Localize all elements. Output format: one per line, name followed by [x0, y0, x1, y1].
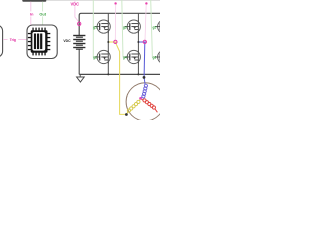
svg-text:Out: Out	[39, 13, 46, 17]
svg-text:VDC: VDC	[70, 2, 79, 7]
svg-text:VDC: VDC	[63, 39, 71, 43]
svg-text:g5: g5	[153, 25, 157, 29]
svg-text:g3: g3	[123, 25, 127, 29]
svg-text:Trig: Trig	[10, 38, 16, 42]
svg-text:g2: g2	[93, 56, 97, 60]
svg-text:g4: g4	[123, 56, 127, 60]
svg-text:g6: g6	[153, 56, 157, 60]
svg-text:g1: g1	[93, 25, 97, 29]
